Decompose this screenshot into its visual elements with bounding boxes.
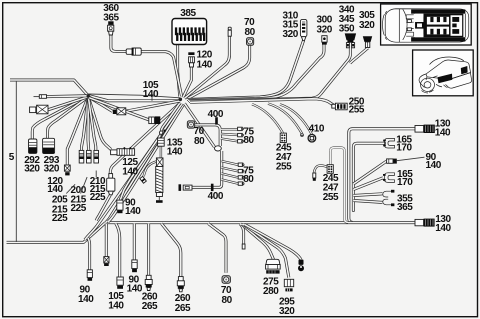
wire 245/247 first stem xyxy=(252,104,283,133)
stub terminal top xyxy=(228,27,231,36)
wire branch lower 75 xyxy=(221,168,238,172)
ring terminal 70/80 bottom xyxy=(222,276,230,284)
svg-text:293320: 293320 xyxy=(44,155,60,174)
svg-text:275280: 275280 xyxy=(263,277,279,297)
eyelet small xyxy=(300,133,304,137)
wire 245/247 second to trunk xyxy=(330,148,348,223)
svg-text:360365: 360365 xyxy=(103,3,119,24)
ring terminal 70/80 top xyxy=(247,38,254,46)
wire suppressor bottom link xyxy=(158,197,160,201)
svg-text:305320: 305320 xyxy=(359,10,375,31)
connector 295/320 xyxy=(284,279,293,291)
plug mid 2 xyxy=(149,116,161,124)
terminal suppressor pigtail xyxy=(140,176,147,183)
leader slashes left group xyxy=(66,171,96,194)
ring terminal 70/80 mid xyxy=(187,121,194,128)
connector small above 105/140 xyxy=(104,257,109,266)
plug mid 1 xyxy=(113,108,126,115)
connector 275/280 xyxy=(266,259,281,273)
wire connector 250/255 to junction B xyxy=(190,99,335,106)
wire fan B to trunk 3 xyxy=(108,105,184,222)
svg-text:292320: 292320 xyxy=(24,155,40,174)
terminal pigtail 245 second xyxy=(313,173,316,181)
car top view box xyxy=(381,4,472,45)
wire right branch 90/140 xyxy=(353,161,386,184)
connector 120/140 top xyxy=(188,52,194,67)
svg-text:250255: 250255 xyxy=(349,96,365,115)
wire trunk drop 260/265 first xyxy=(147,224,150,276)
wire fuse box stem xyxy=(178,45,180,97)
connector 292/320 xyxy=(29,139,37,153)
wire branch 80 upper xyxy=(221,134,238,135)
wire stub terminal to junction B xyxy=(185,36,230,98)
tick 400 upper xyxy=(215,117,218,124)
wire mid plug1 right to junction B xyxy=(126,101,180,111)
svg-text:130140: 130140 xyxy=(435,119,451,139)
wire branch 75 upper xyxy=(221,128,238,130)
car rear sketch box xyxy=(413,50,474,96)
svg-text:7580: 7580 xyxy=(243,165,254,185)
wire branch lower 1 xyxy=(221,161,238,165)
wire main top-left horizontal to junction A xyxy=(10,80,88,96)
connector 90/140 mid xyxy=(117,200,123,213)
svg-text:355365: 355365 xyxy=(397,193,413,213)
wire trunk drop 105/140 xyxy=(116,224,120,278)
wire bottom-left horizontal xyxy=(7,223,106,243)
plug 200 xyxy=(87,150,92,163)
wire 245/247 second pigtail xyxy=(314,165,327,172)
wire fan B to connector 90/140 mid xyxy=(120,104,182,200)
wire 360/365 lead to bullet xyxy=(111,35,127,52)
svg-text:245247255: 245247255 xyxy=(323,173,339,203)
svg-text:130140: 130140 xyxy=(435,214,451,234)
wire fan B to capsule top xyxy=(110,103,180,174)
eyelet 135/140 xyxy=(159,130,165,135)
connector 245/247/255 second xyxy=(327,165,333,174)
wire trunk fan to 275/280 xyxy=(242,224,274,260)
wire A to connector 292/320 xyxy=(32,97,87,140)
wire trunk drop ring 70/80 bottom xyxy=(208,224,226,273)
wire branch lower 4 xyxy=(221,180,238,184)
wire connector 120/140 top to junction B xyxy=(183,67,191,98)
clip 355 xyxy=(383,190,395,197)
wire right trunk vertical xyxy=(353,143,384,210)
connector 120/140 left xyxy=(64,165,70,175)
wire capsule bottom to trunk xyxy=(96,195,110,221)
plug B2 pair xyxy=(30,105,48,114)
fuse box 385 xyxy=(172,19,207,45)
wire main bottom trunk xyxy=(106,221,415,224)
svg-text:310315320: 310315320 xyxy=(283,10,299,40)
svg-text:7080: 7080 xyxy=(194,126,206,147)
connector 130/140 upper right xyxy=(415,125,435,133)
terminals 75/80 lower group xyxy=(238,163,244,185)
wire connector 300/320 to junction B xyxy=(188,44,324,100)
wire trunk drop 90/140 bottom-left xyxy=(88,238,90,270)
connector 250/255 xyxy=(332,103,347,110)
svg-text:295320: 295320 xyxy=(279,297,295,317)
svg-text:135140: 135140 xyxy=(167,137,183,157)
svg-text:245247255: 245247255 xyxy=(276,143,292,173)
connector 360/365 xyxy=(108,21,114,35)
wire branch third upper xyxy=(221,139,238,142)
wire trunk drop 260/265 second xyxy=(162,224,181,277)
svg-text:120140: 120140 xyxy=(197,50,213,71)
wire A to plug 200 xyxy=(87,99,91,151)
svg-text:165170: 165170 xyxy=(396,134,412,153)
svg-text:400: 400 xyxy=(208,191,224,202)
svg-text:260265: 260265 xyxy=(142,292,158,313)
wire link junction A to junction B xyxy=(88,96,179,101)
wire A to plug 205 xyxy=(82,98,89,150)
svg-text:120140: 120140 xyxy=(47,176,63,195)
ring terminal 410 xyxy=(308,134,316,142)
connector 305/320 xyxy=(363,36,372,47)
wire plug A1 tail xyxy=(34,96,40,98)
connector 130/140 lower right xyxy=(415,219,435,227)
connector 105/140 bottom xyxy=(117,277,123,289)
wire A to connector 125/140 xyxy=(89,98,112,150)
wire A to plug 210 xyxy=(89,98,96,150)
connector 260/265 first xyxy=(145,275,152,290)
svg-text:400: 400 xyxy=(208,109,224,120)
clip 165/170 lower xyxy=(383,173,395,183)
wire plug A1 to junction A xyxy=(47,94,89,98)
junction B dot xyxy=(179,98,183,102)
wire connector 310/315/320 to junction B xyxy=(187,40,304,99)
bullet connector 360/365 lead xyxy=(126,48,141,56)
tick 400 lower xyxy=(211,184,214,191)
wire 5 vertical xyxy=(15,81,17,242)
terminals 75/80 upper group xyxy=(238,127,244,143)
plug 205 xyxy=(79,150,84,163)
connector below eyelet xyxy=(158,138,165,146)
svg-text:125140: 125140 xyxy=(122,157,138,178)
wire second link A-B xyxy=(88,94,180,98)
svg-text:385: 385 xyxy=(180,8,196,19)
wire fan B to trunk 1 xyxy=(106,104,182,223)
svg-text:340345350: 340345350 xyxy=(339,5,355,35)
wire trunk fan stub xyxy=(240,224,244,244)
svg-text:7580: 7580 xyxy=(243,126,254,146)
wire connector 305/320 merge xyxy=(350,48,368,63)
wire mid plug2 to junction A xyxy=(89,98,149,120)
junction A dot xyxy=(87,94,90,97)
wire suppressor mid link xyxy=(160,146,162,158)
wire right branch clip 165/170 lower xyxy=(353,178,383,190)
svg-text:300320: 300320 xyxy=(317,14,333,35)
wire fan B to eyelet 135 xyxy=(161,104,179,132)
wire 400 lower horizontal to vertical xyxy=(192,151,222,187)
svg-text:7080: 7080 xyxy=(244,17,256,38)
connector 300/320 xyxy=(322,36,327,45)
suppressor assembly xyxy=(156,158,163,203)
connector 90/140 bottom-left xyxy=(87,270,92,281)
svg-text:7080: 7080 xyxy=(221,285,233,306)
connector 125/140 inline xyxy=(111,147,135,155)
connector 310/315/320 xyxy=(300,19,307,40)
wire trunk drop 90/140 second xyxy=(133,224,136,260)
svg-text:210215225: 210215225 xyxy=(90,176,106,203)
connector 340/345/350 xyxy=(345,33,356,47)
wire right branch clip 355 xyxy=(353,194,382,196)
wire trunk drop small connector xyxy=(105,224,108,257)
svg-text:260265: 260265 xyxy=(175,293,191,314)
svg-text:205215225: 205215225 xyxy=(52,195,68,225)
wire trunk fan to bullets xyxy=(245,224,302,259)
wire suppressor pigtail xyxy=(144,162,157,177)
stub terminal bottom fan xyxy=(242,244,245,249)
connector 120/140 lower mid xyxy=(179,184,193,191)
connector 245/247/255 first xyxy=(280,133,286,142)
connector 90/140 bottom second xyxy=(132,260,137,272)
connector 90/140 right xyxy=(387,159,397,164)
wire A to connector 120/140 left xyxy=(67,98,88,165)
connector 260/265 second xyxy=(177,277,184,292)
wire right branch clip 365 xyxy=(353,201,382,203)
plug 210 xyxy=(94,150,99,163)
oval junction xyxy=(215,146,222,151)
wire ring 70/80 top to junction B xyxy=(187,45,250,99)
svg-text:165170: 165170 xyxy=(397,169,413,188)
svg-text:5: 5 xyxy=(9,152,15,163)
wire A to connector 293/320 xyxy=(48,97,88,138)
wire plug B2 to junction A xyxy=(48,97,88,110)
wire fan B to trunk 2 xyxy=(85,104,183,240)
bullet pair black xyxy=(298,260,304,272)
wire 105/140 tick xyxy=(151,96,153,101)
wire diagonal B to oval junction xyxy=(185,104,215,148)
capsule component xyxy=(107,174,115,195)
clip 165/170 upper xyxy=(383,138,394,148)
wire ring 70/80 mid to vertical 75/80 xyxy=(194,125,220,146)
svg-text:105140: 105140 xyxy=(108,291,124,311)
wire bullet to junction B xyxy=(141,52,182,96)
wire leader 90/140 right xyxy=(397,157,425,161)
clip 365 xyxy=(383,199,395,206)
svg-text:200215225: 200215225 xyxy=(71,185,87,214)
wire connector 130/140 upper-right to junction B xyxy=(349,129,415,223)
wire trunk fan to 295/320 xyxy=(243,224,289,277)
wire ring 410 stem xyxy=(280,104,312,134)
wire suppressor top link xyxy=(160,135,162,138)
connector 293/320 xyxy=(43,138,55,153)
plug A1 xyxy=(39,95,46,99)
wire branch lower 80 xyxy=(221,174,238,178)
wire connector 340/345/350 to junction B xyxy=(189,48,350,101)
svg-text:410: 410 xyxy=(309,123,325,134)
svg-text:105140: 105140 xyxy=(143,80,159,100)
wire eyelet stem xyxy=(268,104,302,134)
wire mid plug1 left to junction A xyxy=(89,97,113,112)
